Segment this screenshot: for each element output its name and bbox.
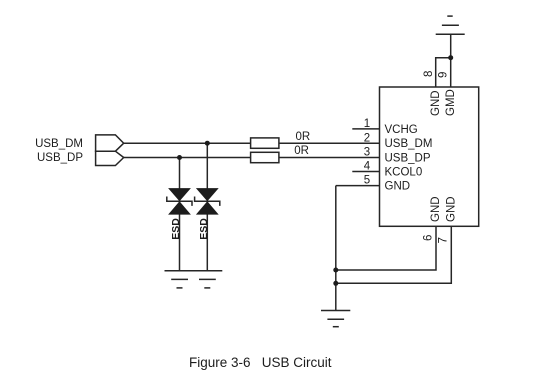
svg-text:3: 3 (364, 146, 370, 158)
svg-text:GND: GND (430, 196, 442, 222)
svg-text:KCOL0: KCOL0 (385, 166, 423, 178)
svg-text:USB_DM: USB_DM (385, 138, 433, 150)
svg-text:GND: GND (446, 196, 458, 222)
svg-text:7: 7 (438, 237, 450, 243)
svg-text:USB_DM: USB_DM (35, 138, 83, 150)
svg-text:GMD: GMD (445, 89, 457, 116)
svg-text:ESD: ESD (170, 218, 182, 240)
svg-text:1: 1 (364, 118, 370, 130)
svg-text:USB_DP: USB_DP (37, 152, 83, 164)
svg-text:ESD: ESD (198, 218, 210, 240)
svg-text:5: 5 (364, 175, 370, 187)
svg-text:8: 8 (423, 71, 435, 77)
svg-text:GND: GND (385, 181, 411, 193)
svg-text:6: 6 (423, 235, 435, 241)
svg-text:0R: 0R (296, 131, 311, 143)
svg-text:4: 4 (364, 161, 371, 173)
svg-text:Figure 3-6 USB Circuit: Figure 3-6 USB Circuit (189, 355, 332, 370)
svg-text:2: 2 (364, 132, 370, 144)
svg-text:9: 9 (437, 72, 449, 78)
svg-text:0R: 0R (294, 145, 309, 157)
svg-text:GND: GND (430, 90, 442, 116)
svg-text:USB_DP: USB_DP (385, 152, 431, 164)
svg-text:VCHG: VCHG (385, 124, 418, 136)
